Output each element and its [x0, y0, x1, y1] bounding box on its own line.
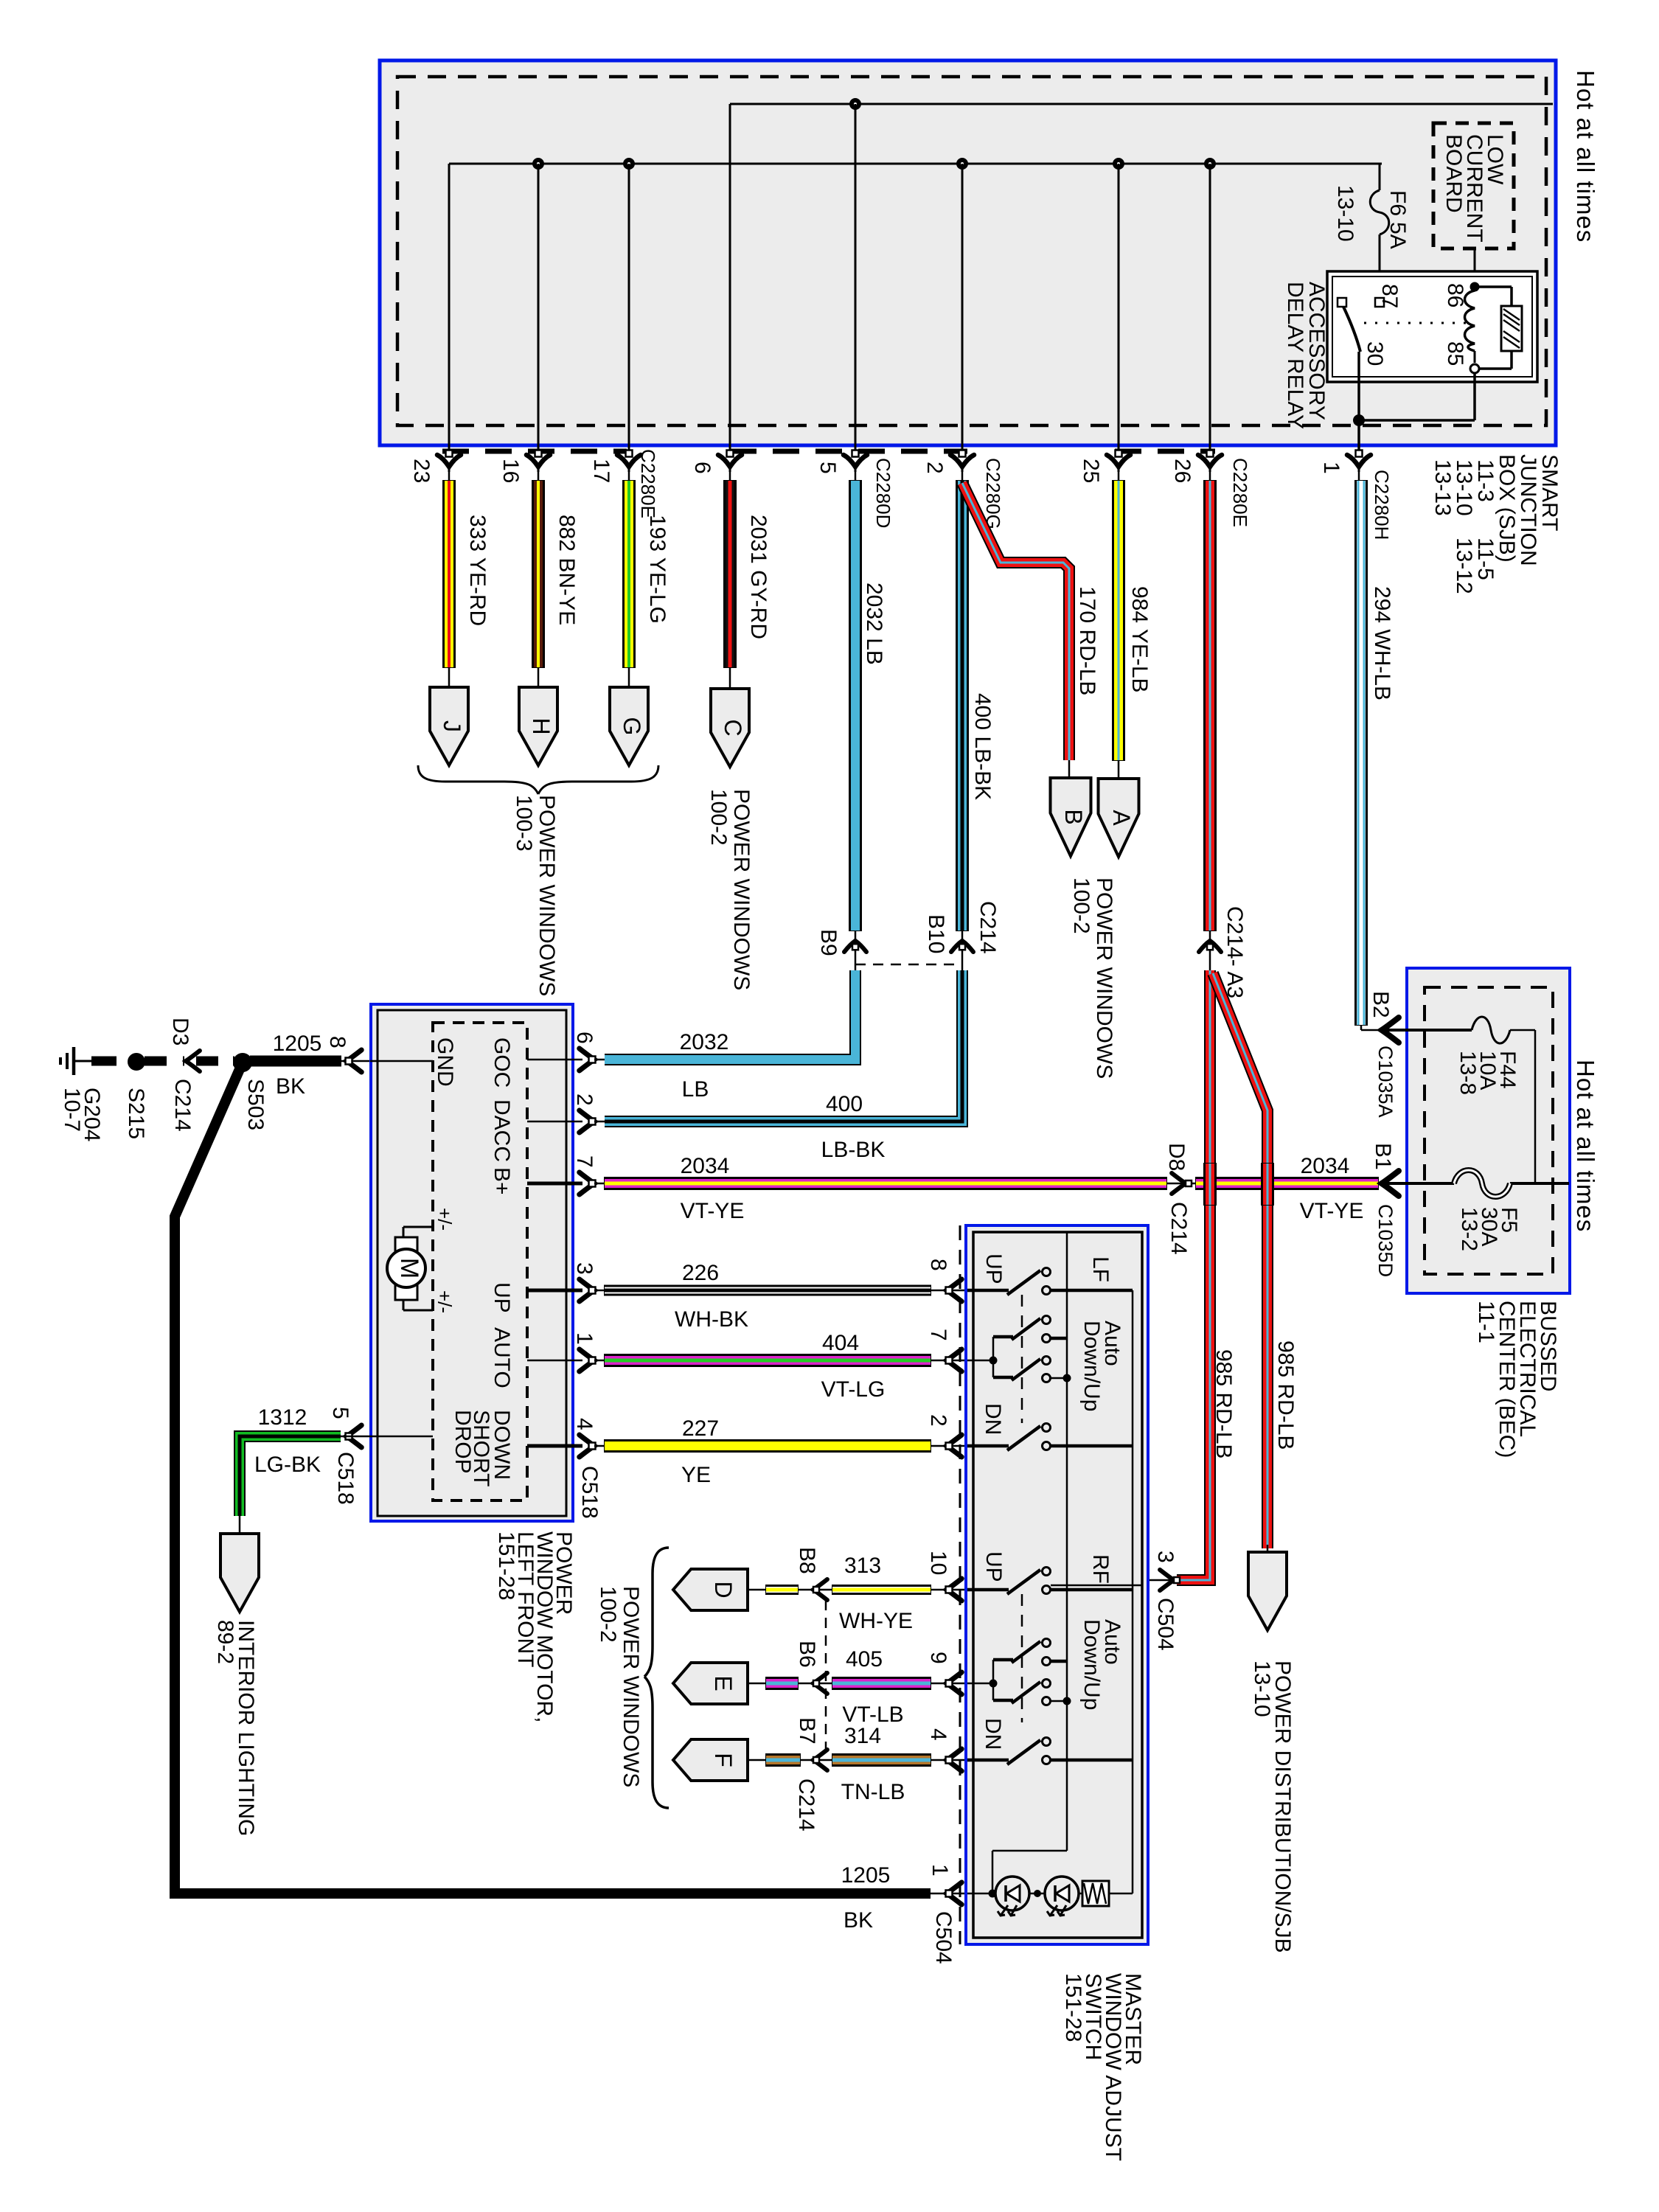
- LED 2: [1045, 1877, 1079, 1910]
- svg-text:AUTO: AUTO: [490, 1327, 514, 1388]
- svg-text:85: 85: [1443, 341, 1467, 366]
- terminator INTERIOR LIGHTING: [220, 1534, 259, 1612]
- SJB pin 26 arrow: [1198, 455, 1222, 467]
- svg-text:LB-BK: LB-BK: [821, 1138, 886, 1162]
- power window motor box: [371, 1004, 573, 1521]
- svg-text:5: 5: [328, 1407, 352, 1419]
- svg-text:POWER WINDOWS: POWER WINDOWS: [619, 1586, 643, 1787]
- svg-text:B2: B2: [1368, 991, 1393, 1018]
- svg-text:C214- A3: C214- A3: [1222, 906, 1247, 998]
- svg-text:9: 9: [926, 1652, 950, 1664]
- svg-text:B8: B8: [795, 1547, 819, 1574]
- SJB pin 6 arrow: [718, 455, 742, 467]
- relay switch lever: [1343, 307, 1360, 352]
- mechanical link dashes RF: [1021, 1594, 1023, 1722]
- motor pin 2 stub: [527, 1121, 582, 1123]
- svg-text:H: H: [528, 717, 554, 734]
- junction C214- A3: [1209, 931, 1211, 973]
- switch LF DN: [967, 1444, 1009, 1448]
- motor pin 3 stub: [527, 1289, 582, 1293]
- svg-text:BK: BK: [844, 1908, 873, 1933]
- svg-text:B9: B9: [816, 929, 841, 956]
- junction B6: [813, 1673, 827, 1694]
- connector dashed bracket C2280: [442, 449, 627, 454]
- terminator B: [1051, 778, 1091, 856]
- junction 3 C504: [1142, 1579, 1178, 1582]
- svg-text:S215: S215: [124, 1088, 148, 1139]
- svg-text:B: B: [1060, 809, 1087, 824]
- relay actuation dotted link: [1364, 322, 1469, 324]
- svg-text:2: 2: [922, 462, 947, 474]
- svg-text:C214: C214: [1166, 1202, 1191, 1255]
- wire 985 RD-LB from pin 26: [1209, 470, 1211, 487]
- svg-text:11-1: 11-1: [1474, 1301, 1498, 1343]
- svg-text:400: 400: [826, 1092, 863, 1116]
- relay coil: [1471, 283, 1479, 291]
- svg-text:13-13: 13-13: [1430, 459, 1455, 516]
- lower bus wire: [449, 163, 1382, 165]
- svg-text:B10: B10: [924, 914, 948, 953]
- svg-text:C214: C214: [794, 1778, 818, 1832]
- wire to pin 26: [1205, 159, 1215, 169]
- motor SHORT DROP stub: [370, 1436, 433, 1438]
- wire 1312 LG-BK: [341, 1436, 370, 1438]
- svg-text:J: J: [439, 720, 465, 732]
- svg-text:C1035D: C1035D: [1374, 1204, 1397, 1277]
- wire 2034 VT-YE: [605, 1178, 1166, 1189]
- svg-text:DN: DN: [981, 1718, 1005, 1750]
- relay contact 87: [1375, 298, 1384, 307]
- svg-text:984 YE-LB: 984 YE-LB: [1127, 586, 1152, 693]
- wire 314 TN-LB stub at F: [748, 1759, 766, 1761]
- fuse F6 5A: [1379, 164, 1381, 190]
- switch pin 8 arrow: [947, 1279, 961, 1301]
- ground G204: [59, 1057, 62, 1065]
- svg-text:25: 25: [1079, 459, 1103, 483]
- svg-text:1312: 1312: [258, 1405, 307, 1430]
- svg-text:5A: 5A: [1385, 222, 1410, 249]
- svg-text:985 RD-LB: 985 RD-LB: [1211, 1349, 1236, 1458]
- bussed electrical center (BEC) box: [1407, 968, 1570, 1293]
- switch bus line: [1132, 1290, 1134, 1893]
- LED row wire: [967, 1893, 996, 1895]
- connector C504 dashed line: [959, 1225, 961, 1944]
- svg-text:DN: DN: [981, 1403, 1005, 1435]
- svg-text:26: 26: [1170, 459, 1194, 483]
- svg-text:404: 404: [822, 1331, 859, 1355]
- svg-text:YE: YE: [681, 1463, 711, 1487]
- svg-text:4: 4: [572, 1418, 597, 1430]
- wire to pin 5: [850, 99, 860, 109]
- wire 313 WH-YE: [832, 1585, 931, 1594]
- svg-text:16: 16: [498, 459, 523, 483]
- svg-text:151-28: 151-28: [1061, 1973, 1085, 2042]
- relay pin 85 contact: [1470, 364, 1479, 373]
- svg-text:C2280E: C2280E: [1229, 458, 1251, 527]
- svg-text:VT-LG: VT-LG: [821, 1377, 886, 1402]
- switch pin 2 arrow: [947, 1435, 961, 1457]
- svg-text:193 YE-LG: 193 YE-LG: [645, 515, 669, 624]
- switch pin 4 arrow: [947, 1749, 961, 1771]
- resistor R1: [1079, 1893, 1082, 1895]
- motor pin 8 arrow: [347, 1050, 361, 1072]
- svg-text:4: 4: [926, 1728, 950, 1741]
- wire to pin 17: [624, 159, 634, 169]
- svg-text:B1: B1: [1371, 1143, 1395, 1170]
- wire to pin 16: [533, 159, 543, 169]
- svg-text:LB: LB: [682, 1077, 709, 1102]
- svg-text:314: 314: [844, 1724, 881, 1748]
- svg-text:C2280E: C2280E: [637, 449, 659, 518]
- wire to pin 23: [448, 164, 451, 453]
- BEC B2 arrow: [1382, 1018, 1399, 1043]
- svg-text:89-2: 89-2: [213, 1620, 237, 1664]
- auto switch feed line: [992, 1850, 1067, 1852]
- junction B9: [855, 931, 857, 970]
- svg-text:C214: C214: [170, 1079, 195, 1132]
- svg-text:13-10: 13-10: [1333, 185, 1357, 242]
- wire 314 TN-LB: [832, 1754, 931, 1766]
- svg-text:D8: D8: [1164, 1143, 1189, 1171]
- svg-text:D3: D3: [168, 1018, 192, 1046]
- svg-text:F6: F6: [1385, 190, 1410, 216]
- motor pin 1 stub: [527, 1360, 582, 1362]
- svg-text:UP: UP: [981, 1253, 1006, 1284]
- wire 193 YE-LG: [628, 470, 630, 487]
- terminator H: [519, 687, 557, 765]
- svg-text:Down/Up: Down/Up: [1079, 1619, 1104, 1710]
- svg-text:227: 227: [682, 1416, 719, 1441]
- switch RF UP: [967, 1588, 1009, 1592]
- brace grouping D E F: [644, 1548, 669, 1677]
- svg-text:TN-LB: TN-LB: [841, 1780, 905, 1804]
- svg-text:86: 86: [1443, 283, 1467, 307]
- svg-text:E: E: [710, 1675, 737, 1691]
- SJB pin 16 arrow: [526, 455, 550, 467]
- svg-text:13-12: 13-12: [1452, 538, 1476, 594]
- svg-text:C504: C504: [1153, 1598, 1178, 1651]
- svg-text:BK: BK: [276, 1074, 305, 1099]
- smart junction box (SJB) power box: [380, 60, 1556, 445]
- svg-text:2: 2: [926, 1414, 950, 1427]
- low current board (dashed box): [1433, 123, 1514, 248]
- svg-text:DELAY RELAY: DELAY RELAY: [1283, 282, 1307, 429]
- switch pin 7 arrow: [947, 1349, 961, 1371]
- svg-text:30: 30: [1363, 341, 1387, 366]
- svg-text:10-7: 10-7: [60, 1088, 84, 1132]
- svg-text:7: 7: [572, 1155, 597, 1168]
- wire 405 VT-LB stub at E: [748, 1683, 766, 1685]
- accessory delay relay U1: [1327, 271, 1537, 382]
- wire 313 WH-YE stub at D: [748, 1589, 766, 1591]
- dashed connector link B8-B7: [825, 1600, 827, 1753]
- svg-text:2031 GY-RD: 2031 GY-RD: [746, 515, 771, 639]
- motor dashed connector boundary: [433, 1023, 527, 1500]
- svg-text:100-2: 100-2: [596, 1586, 620, 1643]
- svg-text:882 BN-YE: 882 BN-YE: [554, 515, 579, 625]
- svg-text:B7: B7: [795, 1717, 819, 1745]
- svg-text:5: 5: [815, 462, 840, 474]
- terminator C: [711, 689, 749, 767]
- svg-text:BOARD: BOARD: [1441, 134, 1466, 213]
- switch pin 10 arrow: [947, 1579, 961, 1601]
- switch pin 3 internal wire: [1051, 1585, 1142, 1587]
- terminator F: [673, 1739, 748, 1781]
- wire 1205 BK to motor pin 8: [251, 1057, 341, 1066]
- svg-text:405: 405: [846, 1647, 883, 1672]
- terminator A: [1099, 779, 1139, 857]
- svg-text:LG-BK: LG-BK: [254, 1453, 321, 1477]
- svg-text:1: 1: [1319, 462, 1343, 474]
- svg-text:2032 LB: 2032 LB: [862, 582, 886, 665]
- wire dashed D3 to S503: [196, 1057, 234, 1066]
- wire 400 LB-BK vertical: [961, 470, 964, 487]
- svg-text:100-2: 100-2: [706, 789, 731, 846]
- svg-text:POWER WINDOWS: POWER WINDOWS: [1092, 877, 1116, 1079]
- switch internal separator line: [1066, 1232, 1068, 1851]
- motor GND stub: [370, 1060, 433, 1062]
- svg-text:13-8: 13-8: [1455, 1051, 1480, 1095]
- svg-text:POWER WINDOWS: POWER WINDOWS: [729, 789, 754, 990]
- master window adjust switch box: [966, 1225, 1148, 1944]
- svg-text:151-28: 151-28: [494, 1531, 518, 1600]
- svg-text:GOC: GOC: [490, 1037, 514, 1088]
- svg-text:100-3: 100-3: [512, 795, 536, 852]
- svg-text:C1035A: C1035A: [1374, 1046, 1397, 1118]
- svg-text:87: 87: [1377, 284, 1402, 308]
- motor pin 7 stub: [527, 1182, 582, 1186]
- svg-text:DROP: DROP: [451, 1410, 475, 1474]
- svg-text:170 RD-LB: 170 RD-LB: [1075, 586, 1099, 695]
- svg-text:2032: 2032: [680, 1030, 729, 1054]
- wire 985 RD-LB to master switch: [1177, 970, 1210, 1580]
- svg-text:C504: C504: [931, 1911, 956, 1964]
- junction B7 C214: [813, 1750, 827, 1770]
- junction B10: [961, 931, 964, 970]
- wire 985 crossing over 2034 (right): [1262, 1164, 1273, 1205]
- fuse F44 10A 13-8: [1472, 1017, 1510, 1043]
- svg-text:2034: 2034: [681, 1154, 730, 1178]
- upper bus wire: [730, 103, 1553, 105]
- svg-text:13-2: 13-2: [1457, 1207, 1481, 1251]
- wire 882 BN-YE: [538, 470, 540, 487]
- wire 2031 GY-RD: [729, 470, 731, 487]
- wire 294 WH-LB: [1358, 470, 1360, 487]
- svg-text:2034: 2034: [1301, 1154, 1350, 1178]
- svg-text:226: 226: [682, 1261, 719, 1285]
- svg-text:+/-: +/-: [434, 1290, 456, 1313]
- svg-text:DACC: DACC: [490, 1099, 514, 1162]
- wire 2032 LB vertical: [855, 470, 857, 487]
- wire 985 crossing over 2034 (left): [1204, 1164, 1216, 1205]
- svg-text:7: 7: [926, 1329, 950, 1341]
- wire 2034 VT-YE right of D8: [1196, 1178, 1378, 1189]
- motor M1: [395, 1237, 417, 1253]
- BEC wire B1 row: [1382, 1182, 1454, 1185]
- svg-text:WH-YE: WH-YE: [839, 1609, 913, 1633]
- motor pin 5 arrow: [347, 1425, 361, 1447]
- wire 985 RD-LB branch to power distribution: [1213, 973, 1267, 1548]
- svg-text:313: 313: [844, 1554, 881, 1578]
- wire 405 VT-LB: [832, 1677, 931, 1689]
- svg-text:Down/Up: Down/Up: [1079, 1321, 1104, 1411]
- brace grouping J H G: [418, 765, 538, 794]
- wire to pin 2: [957, 159, 967, 169]
- SJB pin 2 arrow: [950, 455, 974, 467]
- svg-text:POWER WINDOWS: POWER WINDOWS: [535, 795, 559, 996]
- svg-text:VT-YE: VT-YE: [1300, 1199, 1364, 1223]
- svg-text:6: 6: [690, 462, 714, 474]
- svg-text:400 LB-BK: 400 LB-BK: [970, 693, 995, 800]
- wire 2032 elbow to motor pin 6: [594, 1059, 605, 1061]
- svg-text:D: D: [710, 1581, 737, 1598]
- svg-text:23: 23: [409, 459, 434, 483]
- svg-text:S503: S503: [243, 1079, 268, 1130]
- splice S503: [234, 1054, 251, 1071]
- svg-text:LF: LF: [1088, 1256, 1113, 1282]
- wire 333 YE-RD: [448, 470, 451, 487]
- svg-text:10: 10: [926, 1551, 950, 1575]
- SJB pin 1 arrow: [1347, 455, 1371, 467]
- SJB pin 5 arrow: [844, 455, 867, 467]
- svg-text:C518: C518: [333, 1452, 358, 1505]
- terminator POWER DISTRIBUTION/SJB: [1267, 1545, 1269, 1552]
- switch LF UP: [967, 1289, 1009, 1293]
- wire 2032 LB horizontal: [605, 970, 855, 1060]
- svg-text:17: 17: [589, 459, 613, 483]
- svg-text:2: 2: [572, 1093, 597, 1106]
- svg-text:RF: RF: [1088, 1554, 1113, 1584]
- svg-text:1: 1: [572, 1332, 597, 1345]
- SJB pin 23 arrow: [437, 455, 461, 467]
- terminator G: [610, 687, 648, 765]
- svg-text:M: M: [395, 1258, 423, 1279]
- motor pin 4 stub: [527, 1444, 582, 1448]
- svg-text:B6: B6: [795, 1641, 819, 1668]
- svg-text:985 RD-LB: 985 RD-LB: [1273, 1340, 1298, 1450]
- svg-text:333 YE-RD: 333 YE-RD: [465, 515, 490, 626]
- svg-text:Hot at all times: Hot at all times: [1572, 70, 1599, 243]
- svg-text:3: 3: [1153, 1551, 1178, 1563]
- SJB pin 25 arrow: [1107, 455, 1130, 467]
- terminator J: [430, 687, 468, 765]
- switch pin 9 arrow: [947, 1672, 961, 1694]
- relay contact 30: [1338, 298, 1346, 307]
- switch LF auto down/up: [967, 1360, 993, 1362]
- svg-text:G: G: [619, 717, 645, 736]
- svg-text:A: A: [1108, 810, 1135, 826]
- junction B8: [813, 1579, 827, 1600]
- SJB dashed internal boundary: [397, 77, 1546, 425]
- wire 1205 BK diagonal down: [175, 1062, 931, 1893]
- svg-text:WH-BK: WH-BK: [675, 1307, 748, 1332]
- svg-text:8: 8: [325, 1036, 349, 1048]
- svg-text:C214: C214: [975, 901, 1000, 954]
- splice S215: [128, 1054, 145, 1070]
- switch RF auto down/up: [967, 1683, 993, 1685]
- wire from low current board to relay coil: [1474, 248, 1476, 287]
- svg-text:6: 6: [572, 1032, 597, 1044]
- svg-text:C2280D: C2280D: [872, 458, 894, 528]
- svg-text:294 WH-LB: 294 WH-LB: [1370, 586, 1394, 700]
- motor pin 6 stub: [527, 1059, 582, 1061]
- connector C214 / D3 arrow: [186, 1051, 200, 1071]
- svg-text:GND: GND: [433, 1037, 457, 1087]
- svg-text:C: C: [720, 719, 746, 736]
- BEC wire B2 row: [1382, 1029, 1472, 1032]
- LED 1: [995, 1877, 1029, 1910]
- BEC dashed boundary: [1425, 987, 1553, 1274]
- BEC B1 arrow: [1382, 1171, 1399, 1196]
- svg-text:13-10: 13-10: [1250, 1660, 1274, 1717]
- relay resistor: [1475, 285, 1512, 288]
- fuse F5 30A 13-2: [1454, 1170, 1510, 1197]
- svg-text:1205: 1205: [273, 1032, 322, 1056]
- svg-text:C2280H: C2280H: [1371, 470, 1393, 540]
- svg-text:UP: UP: [490, 1282, 514, 1313]
- wire 170 RD-LB: [962, 483, 1069, 760]
- svg-text:F: F: [710, 1753, 737, 1767]
- switch RF DN: [967, 1759, 1009, 1762]
- wire 226 WH-BK: [605, 1286, 931, 1295]
- wire 1205 BK dashed to S215: [91, 1057, 130, 1066]
- SJB pin 17 arrow: [617, 455, 641, 467]
- wire to pin 6: [729, 104, 731, 453]
- wire 404 VT-LG: [605, 1354, 931, 1366]
- wire 227 YE: [605, 1440, 931, 1452]
- svg-text:+/-: +/-: [434, 1208, 456, 1231]
- wire 400 LB-BK horizontal: [605, 970, 962, 1121]
- wire dashed S215 to D3: [145, 1057, 184, 1066]
- wire relay 85/30 to pin 1: [1473, 373, 1476, 420]
- junction D8 C214: [1166, 1183, 1196, 1185]
- svg-text:1: 1: [928, 1864, 952, 1877]
- svg-text:1205: 1205: [841, 1863, 891, 1888]
- svg-text:B+: B+: [490, 1167, 514, 1195]
- terminator E: [673, 1663, 748, 1704]
- svg-text:C518: C518: [577, 1466, 602, 1519]
- wire 984 YE-LB: [1118, 470, 1120, 487]
- dashed link B9-B10: [855, 964, 962, 966]
- terminator D: [673, 1569, 748, 1610]
- svg-text:Hot at all times: Hot at all times: [1572, 1060, 1599, 1232]
- mechanical link dashes LF: [1021, 1295, 1023, 1423]
- master switch pin 1 arrow: [931, 1893, 967, 1895]
- svg-text:8: 8: [926, 1259, 950, 1271]
- wire to pin 25: [1113, 159, 1124, 169]
- svg-text:3: 3: [572, 1262, 597, 1275]
- svg-text:UP: UP: [981, 1551, 1006, 1582]
- svg-text:VT-YE: VT-YE: [681, 1199, 745, 1223]
- svg-text:100-2: 100-2: [1069, 877, 1093, 934]
